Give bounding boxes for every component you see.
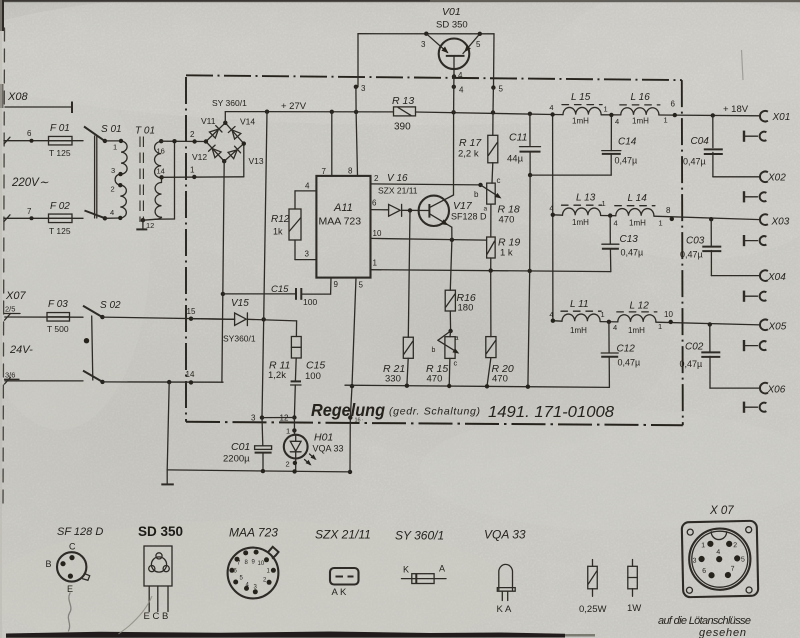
svg-text:8: 8	[348, 167, 353, 176]
svg-text:220V∼: 220V∼	[11, 177, 49, 189]
svg-text:V01: V01	[442, 6, 461, 18]
svg-text:B: B	[46, 559, 52, 569]
svg-text:2: 2	[111, 185, 115, 194]
svg-text:1: 1	[286, 427, 290, 436]
svg-text:44µ: 44µ	[507, 154, 524, 165]
svg-text:14: 14	[157, 167, 165, 176]
svg-text:0,47µ: 0,47µ	[615, 156, 638, 166]
svg-text:c: c	[454, 359, 458, 368]
svg-text:VQA 33: VQA 33	[484, 528, 526, 542]
svg-text:5: 5	[499, 85, 504, 94]
svg-text:1mH: 1mH	[572, 218, 589, 227]
svg-text:T 125: T 125	[49, 226, 71, 236]
svg-text:+ 27V: + 27V	[281, 101, 307, 112]
svg-text:gesehen: gesehen	[699, 627, 746, 638]
svg-text:R 13: R 13	[392, 95, 414, 107]
svg-text:R 17: R 17	[459, 137, 482, 149]
svg-text:4: 4	[305, 182, 310, 191]
svg-text:1: 1	[190, 166, 195, 175]
svg-text:10: 10	[664, 310, 673, 319]
svg-text:1: 1	[701, 542, 705, 549]
svg-text:C15: C15	[271, 284, 289, 295]
svg-text:T 01: T 01	[135, 126, 155, 137]
svg-text:5: 5	[476, 40, 481, 49]
svg-text:E C B: E C B	[144, 611, 169, 622]
svg-text:3: 3	[251, 414, 256, 423]
svg-text:2: 2	[733, 542, 737, 549]
svg-text:L 11: L 11	[570, 299, 589, 310]
svg-text:1: 1	[658, 322, 662, 331]
svg-text:SF 128 D: SF 128 D	[57, 526, 103, 538]
svg-text:VQA 33: VQA 33	[313, 444, 344, 454]
svg-text:0,47µ: 0,47µ	[621, 248, 644, 258]
svg-text:C12: C12	[617, 344, 636, 355]
svg-text:0,47µ: 0,47µ	[680, 250, 703, 260]
svg-text:0,47µ: 0,47µ	[680, 359, 703, 369]
svg-text:MAA 723: MAA 723	[229, 526, 278, 540]
svg-text:T 125: T 125	[49, 148, 71, 158]
svg-text:100: 100	[305, 371, 321, 382]
svg-text:1k: 1k	[273, 227, 283, 237]
svg-text:1: 1	[373, 259, 378, 268]
svg-text:SD 350: SD 350	[436, 20, 468, 31]
svg-text:0,47µ: 0,47µ	[683, 157, 706, 167]
svg-text:V17: V17	[453, 200, 473, 212]
svg-text:V14: V14	[240, 117, 255, 127]
svg-text:X02: X02	[767, 173, 786, 184]
svg-text:a: a	[455, 335, 459, 342]
svg-text:R12: R12	[271, 214, 290, 225]
svg-text:100: 100	[303, 297, 317, 307]
svg-text:K A: K A	[497, 604, 512, 615]
svg-text:X03: X03	[771, 217, 790, 228]
svg-text:16: 16	[157, 147, 165, 156]
svg-text:S 01: S 01	[101, 124, 122, 135]
svg-text:X08: X08	[7, 91, 28, 103]
svg-text:1,2k: 1,2k	[268, 370, 286, 381]
svg-text:3: 3	[305, 250, 310, 259]
svg-text:4: 4	[458, 71, 463, 80]
svg-text:X07: X07	[5, 290, 26, 302]
svg-text:1: 1	[602, 199, 606, 208]
svg-text:A: A	[439, 564, 445, 574]
svg-text:1: 1	[601, 310, 605, 319]
svg-text:6: 6	[702, 568, 706, 575]
svg-text:V13: V13	[249, 156, 264, 166]
svg-text:c: c	[497, 176, 501, 185]
svg-text:L 13: L 13	[576, 193, 596, 204]
svg-text:2,2 k: 2,2 k	[458, 149, 479, 160]
svg-text:4: 4	[459, 86, 464, 95]
svg-text:6: 6	[372, 199, 377, 208]
svg-text:1: 1	[113, 143, 117, 152]
svg-text:6: 6	[27, 129, 32, 138]
svg-text:1: 1	[664, 116, 668, 125]
svg-text:SZX 21/11: SZX 21/11	[315, 528, 371, 542]
svg-text:1: 1	[604, 105, 608, 114]
svg-text:K: K	[403, 565, 409, 575]
svg-text:12: 12	[280, 414, 289, 423]
svg-text:+ 18V: + 18V	[723, 104, 749, 115]
svg-text:1: 1	[659, 219, 663, 228]
svg-text:C02: C02	[685, 342, 704, 353]
svg-text:a: a	[484, 206, 488, 213]
svg-text:(gedr. Schaltung): (gedr. Schaltung)	[389, 406, 480, 418]
svg-text:6: 6	[671, 100, 676, 109]
svg-text:V 16: V 16	[387, 173, 408, 184]
svg-text:L 14: L 14	[628, 193, 648, 204]
svg-text:2: 2	[374, 174, 379, 183]
svg-text:X01: X01	[772, 112, 791, 123]
svg-text:X05: X05	[768, 322, 787, 333]
svg-text:12: 12	[146, 221, 154, 230]
svg-text:4: 4	[615, 117, 619, 126]
svg-text:SF128 D: SF128 D	[451, 212, 487, 222]
svg-text:X04: X04	[767, 272, 786, 283]
svg-text:C11: C11	[509, 132, 527, 144]
svg-text:V12: V12	[192, 152, 207, 162]
svg-text:C13: C13	[620, 234, 639, 245]
svg-text:1W: 1W	[627, 603, 641, 614]
svg-text:H01: H01	[314, 432, 333, 444]
svg-text:1491. 171-01008: 1491. 171-01008	[488, 404, 614, 421]
svg-text:3: 3	[692, 557, 696, 564]
svg-text:470: 470	[499, 215, 515, 226]
svg-text:2: 2	[286, 460, 290, 469]
svg-text:F 02: F 02	[50, 201, 70, 212]
svg-text:1mH: 1mH	[629, 219, 646, 228]
svg-text:L 16: L 16	[631, 92, 651, 103]
svg-text:4: 4	[716, 549, 720, 556]
svg-text:A K: A K	[332, 587, 347, 598]
svg-text:b: b	[432, 347, 436, 354]
svg-text:4: 4	[549, 204, 553, 213]
svg-text:C03: C03	[686, 236, 705, 247]
svg-text:3: 3	[421, 40, 426, 49]
svg-text:10: 10	[258, 561, 265, 567]
svg-text:1 k: 1 k	[500, 248, 513, 259]
svg-text:C15: C15	[306, 360, 325, 372]
svg-text:8: 8	[666, 206, 671, 215]
svg-text:V15: V15	[231, 298, 249, 309]
svg-text:10: 10	[373, 229, 382, 238]
svg-text:4: 4	[613, 323, 617, 332]
svg-text:auf die Lötanschlüsse: auf die Lötanschlüsse	[658, 615, 751, 627]
svg-text:5: 5	[359, 281, 364, 290]
svg-text:4: 4	[549, 310, 553, 319]
svg-text:F 01: F 01	[50, 123, 70, 134]
svg-text:2/5: 2/5	[5, 305, 15, 314]
svg-text:S 02: S 02	[100, 300, 121, 311]
svg-text:470: 470	[492, 374, 508, 385]
svg-text:15: 15	[187, 307, 196, 316]
svg-text:L 12: L 12	[630, 301, 650, 312]
svg-text:470: 470	[427, 374, 443, 385]
svg-text:C01: C01	[231, 441, 250, 453]
svg-text:C: C	[69, 542, 76, 552]
svg-text:SD 350: SD 350	[138, 524, 183, 539]
svg-text:7: 7	[27, 207, 32, 216]
svg-text:180: 180	[458, 303, 474, 314]
svg-text:SY360/1: SY360/1	[223, 334, 256, 344]
svg-text:7: 7	[731, 566, 735, 573]
svg-text:SY 360/1: SY 360/1	[212, 98, 247, 108]
svg-text:X 07: X 07	[709, 505, 734, 517]
svg-text:4: 4	[110, 208, 114, 217]
svg-text:330: 330	[385, 374, 401, 385]
svg-text:SY 360/1: SY 360/1	[395, 529, 444, 543]
svg-text:1mH: 1mH	[628, 326, 645, 335]
svg-text:F 03: F 03	[48, 299, 68, 310]
svg-text:390: 390	[394, 122, 411, 133]
svg-text:4: 4	[549, 103, 553, 112]
svg-text:9: 9	[334, 280, 339, 289]
svg-text:24V-: 24V-	[9, 344, 33, 356]
svg-text:V11: V11	[201, 116, 216, 126]
svg-text:0,47µ: 0,47µ	[618, 358, 641, 368]
svg-text:2: 2	[190, 130, 195, 139]
svg-text:Regelung: Regelung	[311, 400, 385, 420]
svg-text:7: 7	[322, 167, 327, 176]
svg-text:1mH: 1mH	[570, 326, 587, 335]
svg-text:SZX 21/11: SZX 21/11	[378, 186, 418, 196]
svg-text:1mH: 1mH	[632, 117, 649, 126]
svg-text:L 15: L 15	[571, 92, 591, 103]
svg-text:MAA 723: MAA 723	[319, 216, 362, 228]
svg-text:14: 14	[186, 370, 195, 379]
svg-text:X06: X06	[767, 385, 786, 396]
svg-text:C14: C14	[618, 137, 637, 148]
svg-text:3: 3	[361, 84, 366, 93]
svg-text:0,25W: 0,25W	[579, 604, 606, 615]
svg-text:A11: A11	[333, 202, 353, 214]
svg-text:4: 4	[614, 219, 618, 228]
svg-text:C04: C04	[691, 136, 710, 147]
svg-text:5: 5	[741, 556, 745, 563]
svg-text:1mH: 1mH	[572, 117, 589, 126]
svg-text:b: b	[474, 190, 479, 199]
svg-text:T 500: T 500	[47, 324, 69, 334]
svg-text:2200µ: 2200µ	[223, 454, 250, 465]
svg-text:3: 3	[111, 166, 115, 175]
